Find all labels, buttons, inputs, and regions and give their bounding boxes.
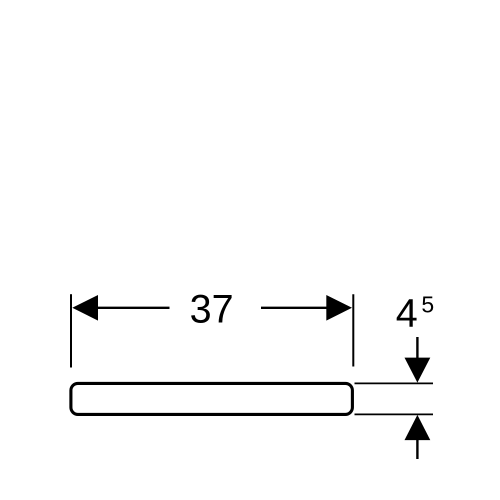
down arrow tail [416,337,418,359]
svg-text:5: 5 [421,291,434,317]
right arrowhead [326,295,352,321]
svg-text:37: 37 [190,288,234,332]
top edge reference line [355,382,434,384]
right extension line [352,294,354,366]
down arrowhead [405,358,431,383]
up arrowhead [405,415,431,440]
dimension line right segment [261,307,327,309]
bottom edge reference line [355,413,434,415]
plate outline [71,383,353,414]
svg-text:4: 4 [396,292,418,336]
dimension line left segment [97,307,170,309]
left arrowhead [72,295,98,321]
left extension line [70,294,72,367]
up arrow tail [416,440,418,460]
